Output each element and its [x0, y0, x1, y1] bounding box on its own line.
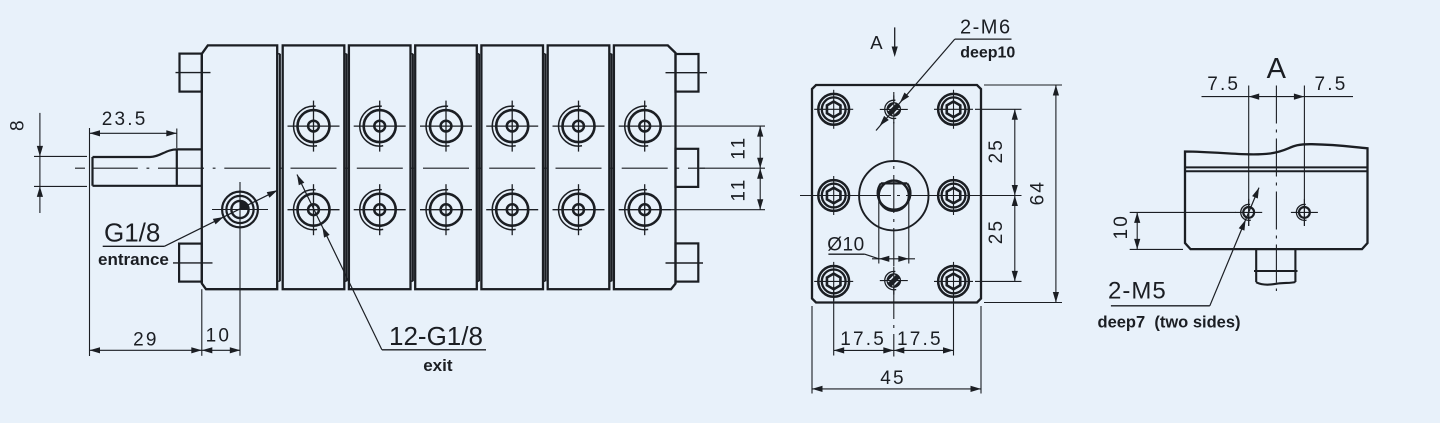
G1/8 exit port row 1 col 5: [553, 101, 605, 152]
mounting lug top-left: [180, 54, 202, 92]
dimension 29: [201, 289, 203, 356]
dimension 64: [984, 84, 1062, 86]
svg-text:64: 64: [1028, 180, 1049, 206]
svg-text:entrance: entrance: [98, 250, 169, 269]
extension line bottom port row: [670, 209, 765, 211]
seam between sections 2 and 3: [346, 54, 348, 281]
block section 4: [415, 45, 477, 289]
G1/8 exit port row 2 col 6: [619, 184, 671, 235]
svg-text:12-G1/8: 12-G1/8: [389, 321, 483, 351]
socket head screw 1: [814, 90, 853, 129]
block section 2: [283, 45, 345, 289]
M6 tapped hole bottom: [880, 267, 908, 295]
dimension 8 (shaft): [39, 113, 41, 213]
socket head screw 4: [934, 90, 973, 129]
svg-text:Ø10: Ø10: [827, 235, 864, 256]
flange vertical centerline: [893, 92, 895, 357]
svg-text:11: 11: [728, 177, 749, 201]
dimension 10 (entrance offset): [202, 349, 241, 351]
svg-text:8: 8: [7, 118, 28, 131]
G1/8 exit port row 1 col 2: [354, 101, 406, 152]
input shaft (left view): [93, 149, 202, 185]
plate joint line upper: [1185, 166, 1368, 168]
svg-text:deep10: deep10: [960, 45, 1015, 62]
socket head screw 5: [934, 176, 973, 215]
extension line centerline right: [700, 167, 765, 169]
svg-text:2-M5: 2-M5: [1108, 278, 1167, 305]
M5 tapped hole right: [1291, 199, 1318, 226]
dimension 11 upper (dim line): [759, 126, 761, 210]
svg-text:deep7 (two sides): deep7 (two sides): [1098, 314, 1241, 332]
M5 tapped hole left: [1235, 199, 1262, 226]
svg-text:10: 10: [206, 326, 232, 347]
dimension 45: [811, 306, 813, 394]
output stub (broken): [1254, 249, 1298, 285]
dimension 17.5 left: [833, 287, 835, 356]
svg-text:29: 29: [133, 330, 159, 351]
socket head screw 2: [814, 176, 853, 215]
dimension 23.5: [89, 128, 91, 356]
block section 3: [349, 45, 411, 289]
svg-text:11: 11: [728, 136, 749, 160]
G1/8 exit port row 2 col 3: [420, 184, 472, 235]
dimension 7.5 pair: [1202, 96, 1354, 98]
G1/8 exit port row 2 col 5: [553, 184, 605, 235]
svg-text:23.5: 23.5: [102, 109, 148, 130]
leader for 12-G1/8 exits: [382, 349, 486, 351]
G1/8 exit port row 1 col 6: [619, 101, 671, 152]
seam between sections 3 and 4: [412, 54, 414, 281]
svg-text:10: 10: [1111, 214, 1132, 240]
hole centerline left: [1248, 86, 1250, 227]
M6 tapped hole top: [880, 95, 908, 123]
G1/8 exit port row 1 col 4: [486, 101, 538, 152]
leader for G1/8 entrance: [103, 245, 165, 247]
svg-text:17.5: 17.5: [897, 329, 943, 350]
block section 5: [481, 45, 543, 289]
right view vertical centerline: [1275, 86, 1277, 292]
end view body with break line (section A): [1185, 144, 1368, 249]
center bore circle: [879, 181, 909, 211]
flange horizontal centerline: [800, 195, 992, 197]
svg-text:45: 45: [880, 368, 906, 389]
socket head screw 3: [814, 262, 853, 301]
svg-text:17.5: 17.5: [840, 329, 886, 350]
mounting lug bottom-left: [179, 244, 202, 282]
mounting lug top-right: [676, 54, 699, 92]
G1/8 exit port row 2 col 1: [288, 184, 340, 235]
flange outline (front view): [812, 85, 981, 303]
leader for 2-M5: [1111, 305, 1210, 307]
seam between sections 4 and 5: [478, 54, 480, 281]
svg-text:7.5: 7.5: [1207, 74, 1240, 95]
svg-text:G1/8: G1/8: [104, 218, 160, 248]
G1/8 exit port row 2 col 4: [486, 184, 538, 235]
plate joint line lower: [1185, 170, 1368, 172]
G1/8 exit port row 1 col 3: [420, 101, 472, 152]
svg-text:2-M6: 2-M6: [960, 17, 1012, 39]
extension line top port row: [670, 125, 765, 127]
G1/8 exit port row 2 col 2: [354, 184, 406, 235]
center bore flat (D-shape): [878, 183, 911, 209]
seam between sections 5 and 6: [544, 54, 546, 281]
mounting lug middle-right: [676, 149, 699, 187]
center boss circle: [859, 161, 928, 230]
block section 7 (end plate): [614, 45, 676, 289]
svg-text:A: A: [1267, 53, 1287, 85]
socket head screw 6: [934, 262, 973, 301]
block section 1 (inlet body): [202, 45, 277, 289]
svg-text:25: 25: [986, 219, 1007, 245]
section arrow A: [894, 27, 896, 52]
seam between sections 1 and 2: [279, 54, 281, 281]
G1/8 entrance port: [212, 182, 268, 356]
G1/8 exit port row 1 col 1: [288, 101, 340, 152]
mounting lug bottom-right: [676, 243, 699, 281]
svg-text:25: 25: [986, 138, 1007, 164]
centerline (left view horizontal axis): [75, 167, 705, 169]
dimension 10 (hole height): [1130, 211, 1236, 213]
seam between sections 6 and 7: [611, 54, 613, 281]
dimension 25 upper: [975, 108, 1022, 110]
svg-text:7.5: 7.5: [1314, 74, 1347, 95]
hole centerline right: [1303, 86, 1305, 227]
block section 6: [548, 45, 610, 289]
svg-text:A: A: [870, 32, 883, 53]
dimension Ø10: [878, 196, 880, 264]
leader for 2-M6: [955, 38, 1012, 40]
svg-text:exit: exit: [423, 356, 453, 375]
